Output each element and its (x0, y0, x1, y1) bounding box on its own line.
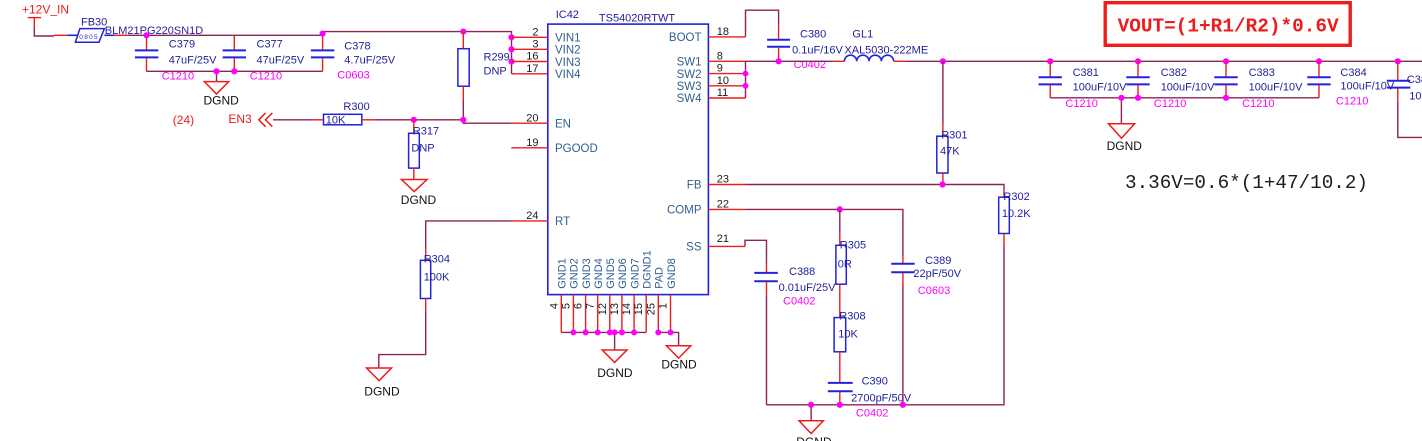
svg-text:C383: C383 (1249, 67, 1275, 79)
capacitor C388 0.01uF/25V (754, 263, 836, 307)
svg-text:TS54020RTWT: TS54020RTWT (599, 13, 675, 25)
svg-text:C382: C382 (1161, 67, 1187, 79)
ground DGND R304 (364, 368, 400, 398)
resistor R302 10.2K (999, 190, 1032, 245)
svg-text:VIN3: VIN3 (555, 57, 581, 69)
ferrite bead FB30 BLM21PG220SN1D (54, 17, 203, 43)
ground DGND input caps (204, 82, 240, 108)
svg-text:DGND: DGND (796, 435, 832, 441)
svg-text:GND4: GND4 (593, 258, 605, 289)
svg-text:VIN2: VIN2 (555, 45, 581, 57)
svg-text:10K: 10K (326, 114, 346, 126)
junction dots output ground bus (1118, 95, 1229, 101)
svg-text:100uF/10V: 100uF/10V (1340, 81, 1394, 93)
pin PAD (25) (645, 267, 665, 332)
svg-text:GND8: GND8 (666, 258, 678, 289)
svg-text:0.1uF/16V: 0.1uF/16V (792, 45, 843, 57)
wire C388 to ground bus (766, 295, 768, 405)
pin SW3 (10) (677, 75, 746, 93)
junction dots PAD GND8 (655, 329, 673, 335)
pin FB (23) (687, 174, 746, 192)
svg-text:25: 25 (645, 303, 657, 315)
junction dot COMP node (837, 206, 843, 212)
svg-text:DNP: DNP (484, 66, 507, 78)
junction dots input bus (143, 29, 514, 75)
svg-text:9: 9 (717, 63, 723, 75)
svg-text:47K: 47K (940, 146, 960, 158)
junction dots VOUT bus (940, 58, 1401, 64)
pin SW1 (8) (677, 50, 746, 68)
svg-text:DGND: DGND (597, 366, 633, 380)
wire SW2-SW4 tie (745, 61, 747, 98)
capacitor C378 4.7uF/25V (311, 35, 396, 81)
svg-text:C379: C379 (169, 38, 195, 50)
pin EN (20) (512, 112, 571, 130)
svg-text:6: 6 (573, 303, 585, 309)
wire FB net (746, 185, 1005, 191)
svg-text:2: 2 (532, 26, 538, 38)
svg-text:GL1: GL1 (852, 29, 873, 41)
svg-text:24: 24 (526, 210, 538, 222)
svg-text:GND5: GND5 (605, 258, 617, 289)
svg-text:100uF/10V: 100uF/10V (1161, 81, 1215, 93)
wire VOUT bus (906, 60, 1422, 62)
svg-text:17: 17 (526, 63, 538, 75)
pin VIN3 (16) (512, 51, 581, 69)
svg-text:+12V_IN: +12V_IN (22, 3, 69, 17)
svg-text:GND6: GND6 (617, 258, 629, 289)
svg-text:GND1: GND1 (557, 258, 569, 289)
svg-text:DGND: DGND (661, 358, 697, 372)
svg-text:20: 20 (526, 112, 538, 124)
wire SS net jog (745, 240, 767, 263)
svg-text:4: 4 (548, 303, 560, 309)
svg-text:21: 21 (717, 233, 729, 245)
pin GND1 (4) (548, 258, 568, 332)
op-amp/regulator IC42 TS54020RTWT (548, 9, 709, 295)
svg-text:DNP: DNP (411, 143, 434, 155)
capacitor C384 100uF/10V (1307, 61, 1395, 107)
svg-text:47uF/25V: 47uF/25V (257, 54, 305, 66)
pin BOOT (18) (669, 26, 746, 44)
svg-text:C389: C389 (925, 255, 951, 267)
svg-text:C0603: C0603 (918, 285, 950, 297)
svg-text:C1210: C1210 (1154, 98, 1186, 110)
svg-text:C1210: C1210 (1065, 98, 1097, 110)
wire C389 to ground bus (902, 285, 904, 405)
wire EN3 chevron to R300 (273, 119, 313, 121)
wire R304 to DGND (379, 311, 426, 368)
wire DGND tap compensation ground (810, 405, 812, 421)
pin RT (24) (511, 210, 571, 228)
capacitor C380 0.1uF/16V (767, 25, 843, 71)
svg-text:COMP: COMP (667, 205, 702, 217)
wire IC ground bus left group (561, 331, 646, 333)
svg-text:18: 18 (717, 26, 729, 38)
svg-text:R301: R301 (941, 129, 967, 141)
resistor R304 100K (420, 248, 450, 311)
svg-text:47uF/25V: 47uF/25V (169, 54, 217, 66)
svg-text:1: 1 (658, 303, 670, 309)
svg-text:(24): (24) (173, 113, 194, 127)
svg-text:100uF/10V: 100uF/10V (1409, 91, 1422, 103)
svg-text:VIN4: VIN4 (555, 69, 581, 81)
junction dots compensation ground bus (808, 402, 906, 408)
pin SS (21) (686, 233, 745, 254)
svg-text:DGND1: DGND1 (642, 250, 654, 289)
svg-text:11: 11 (717, 87, 728, 99)
junction dots EN3 net (411, 117, 467, 123)
node EN3 (24) (173, 112, 272, 127)
wire capacitor ground bus (147, 70, 323, 72)
resistor R305 0R (836, 233, 866, 318)
pin GND8 (1) (658, 258, 678, 332)
svg-text:C0402: C0402 (783, 295, 815, 307)
wire C385 to edge (1398, 102, 1422, 138)
svg-text:VOUT=(1+R1/R2)*0.6V: VOUT=(1+R1/R2)*0.6V (1118, 16, 1339, 38)
capacitor C379 47uF/25V (135, 35, 217, 82)
svg-text:EN3: EN3 (228, 112, 252, 126)
wire R299 to EN3 net (462, 100, 464, 120)
ground DGND IC left group (597, 350, 633, 380)
svg-text:10: 10 (717, 75, 729, 87)
svg-text:GND7: GND7 (629, 258, 641, 289)
svg-text:100uF/10V: 100uF/10V (1249, 81, 1303, 93)
wire DGND tap input caps (216, 71, 218, 81)
svg-text:C0402: C0402 (856, 408, 888, 420)
svg-text:C384: C384 (1340, 67, 1366, 79)
capacitor C389 22pF/50V (891, 255, 962, 297)
resistor R300 10K (313, 101, 374, 126)
svg-text:23: 23 (717, 174, 729, 186)
junction dots SW net (743, 58, 782, 89)
svg-text:4.7uF/25V: 4.7uF/25V (344, 54, 395, 66)
svg-text:C381: C381 (1073, 67, 1099, 79)
junction dot FB node (939, 181, 945, 187)
wire DGND tap output caps (1120, 98, 1122, 124)
capacitor C381 100uF/10V (1039, 61, 1128, 110)
svg-text:16: 16 (526, 51, 538, 63)
wire R302 to ground bus (767, 245, 1005, 405)
ground DGND R317 (401, 180, 437, 208)
svg-text:0805: 0805 (79, 34, 99, 41)
svg-text:SW3: SW3 (677, 81, 702, 93)
svg-text:12: 12 (597, 303, 609, 315)
svg-text:VIN1: VIN1 (555, 33, 581, 45)
capacitor C385 100uF (clipped at edge) (1387, 61, 1422, 102)
svg-text:R304: R304 (424, 253, 450, 265)
svg-text:13: 13 (609, 303, 621, 315)
wire input bus FB30 to C378 node (128, 32, 512, 74)
svg-text:0.01uF/25V: 0.01uF/25V (779, 282, 837, 294)
svg-text:BOOT: BOOT (669, 32, 702, 44)
svg-text:R299: R299 (484, 52, 510, 64)
svg-text:100uF/10V: 100uF/10V (1073, 81, 1127, 93)
svg-text:C378: C378 (344, 40, 370, 52)
capacitor C383 100uF/10V (1214, 61, 1303, 110)
ground DGND compensation (796, 421, 832, 441)
pin VIN2 (3) (512, 38, 581, 56)
svg-text:22pF/50V: 22pF/50V (913, 268, 961, 280)
wire DGND tap left group (614, 332, 616, 350)
resistor R308 10K (834, 311, 865, 383)
capacitor C382 100uF/10V (1126, 61, 1215, 110)
wire BOOT loop (746, 10, 779, 37)
svg-text:FB30: FB30 (81, 17, 107, 29)
svg-text:7: 7 (585, 303, 597, 309)
pin GND6 (13) (609, 258, 629, 332)
svg-text:3: 3 (532, 38, 538, 50)
svg-text:R300: R300 (343, 101, 369, 113)
svg-text:SW1: SW1 (677, 57, 702, 69)
junction dots IC ground bus (570, 329, 637, 335)
svg-text:SS: SS (686, 242, 702, 254)
wire COMP net (746, 209, 903, 256)
svg-text:10.2K: 10.2K (1002, 208, 1031, 220)
wire IC ground bus right group (658, 332, 678, 345)
wire EN3 net R300 to EN pin (374, 120, 512, 123)
pin GND7 (14) (621, 258, 641, 332)
resistor R301 47K (937, 61, 968, 184)
wire output cap ground bus (1050, 97, 1319, 99)
pin SW2 (9) (677, 63, 746, 81)
svg-text:14: 14 (621, 303, 633, 315)
svg-text:PGOOD: PGOOD (555, 143, 598, 155)
ground DGND IC right group (661, 346, 697, 372)
svg-text:3.36V=0.6*(1+47/10.2): 3.36V=0.6*(1+47/10.2) (1125, 172, 1368, 194)
svg-text:C390: C390 (862, 376, 888, 388)
svg-text:R317: R317 (413, 126, 439, 138)
svg-text:15: 15 (633, 303, 645, 315)
pin GND4 (7) (585, 258, 605, 332)
svg-text:C1210: C1210 (1336, 96, 1368, 108)
inductor GL1 XAL5030-222ME (833, 29, 928, 62)
svg-text:PAD: PAD (654, 267, 666, 289)
power symbol +12V_IN (22, 3, 69, 29)
svg-text:0R: 0R (838, 258, 852, 270)
pin COMP (22) (667, 199, 746, 217)
svg-text:C385: C385 (1407, 74, 1422, 86)
resistor R299 DNP (458, 32, 510, 100)
wire RT pin to R304 (426, 221, 511, 248)
pin GND2 (5) (560, 258, 580, 332)
wire SW1 to inductor (746, 60, 834, 62)
svg-text:IC42: IC42 (556, 9, 579, 21)
svg-text:C0603: C0603 (337, 69, 369, 81)
svg-text:C380: C380 (800, 29, 826, 41)
svg-text:XAL5030-222ME: XAL5030-222ME (844, 45, 928, 57)
svg-text:10K: 10K (838, 329, 858, 341)
svg-text:22: 22 (717, 199, 729, 211)
pin PGOOD (19) (511, 137, 598, 155)
pin GND5 (12) (597, 258, 617, 332)
svg-text:100K: 100K (424, 272, 450, 284)
pin VIN1 (2) (512, 26, 581, 44)
ground DGND output caps (1107, 124, 1143, 153)
svg-text:C1210: C1210 (250, 71, 282, 83)
capacitor C377 47uF/25V (223, 35, 305, 82)
svg-text:SW4: SW4 (677, 93, 703, 105)
svg-text:C1210: C1210 (162, 71, 194, 83)
pin SW4 (11) (677, 87, 746, 105)
svg-text:19: 19 (526, 137, 538, 149)
pin GND3 (6) (573, 258, 593, 332)
svg-text:RT: RT (555, 216, 570, 228)
svg-text:EN: EN (555, 118, 571, 130)
svg-text:DGND: DGND (401, 193, 437, 207)
resistor R317 DNP (409, 120, 439, 180)
svg-text:GND3: GND3 (581, 258, 593, 289)
svg-text:5: 5 (560, 303, 572, 309)
pin DGND1 (15) (633, 250, 653, 332)
svg-text:FB: FB (687, 180, 702, 192)
svg-text:DGND: DGND (204, 94, 240, 108)
svg-text:8: 8 (717, 50, 723, 62)
wire COMP to R305 (839, 209, 841, 233)
svg-text:C1210: C1210 (1242, 98, 1274, 110)
svg-text:DGND: DGND (1107, 139, 1143, 153)
note box VOUT formula (1105, 3, 1350, 46)
svg-text:C377: C377 (257, 38, 283, 50)
svg-text:GND2: GND2 (569, 258, 581, 289)
svg-text:SW2: SW2 (677, 69, 702, 81)
svg-text:R302: R302 (1003, 191, 1029, 203)
capacitor C390 2700pF/50V (828, 376, 912, 420)
svg-text:C388: C388 (789, 266, 815, 278)
wire +12V_IN to FB30 (34, 29, 54, 37)
svg-text:R305: R305 (840, 239, 866, 251)
svg-text:R308: R308 (839, 311, 865, 323)
svg-text:DGND: DGND (364, 384, 400, 398)
pin VIN4 (17) (512, 63, 582, 81)
